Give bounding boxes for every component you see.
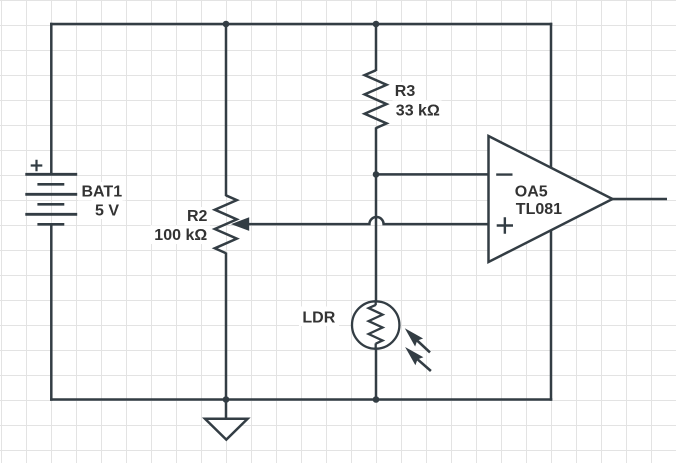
svg-text:R3: R3 (395, 83, 416, 100)
svg-text:BAT1: BAT1 (82, 183, 123, 200)
label 5 V (92, 200, 123, 219)
battery BAT1 (25, 160, 77, 225)
node: top rail / R2 junction (223, 21, 230, 28)
label 33 kOhm (393, 100, 442, 119)
svg-text:TL081: TL081 (516, 201, 562, 218)
wire: vertical wire from node down to LDR (375, 174, 378, 300)
svg-text:5 V: 5 V (95, 202, 119, 219)
label R3 (392, 82, 420, 100)
wire: bottom ground rail (50, 398, 552, 401)
potentiometer R2 (215, 195, 249, 253)
wire: R2 top lead (225, 23, 228, 196)
wire: R3 top lead (375, 23, 378, 71)
svg-text:R2: R2 (187, 208, 208, 225)
label BAT1 (78, 182, 126, 201)
resistor R3 (365, 70, 387, 128)
photoresistor LDR (352, 300, 431, 371)
label LDR (299, 307, 339, 327)
wire: LDR bottom lead (375, 350, 378, 401)
wire: op-amp output (612, 198, 668, 201)
wire: R2 wiper to op-amp non-inverting input (hops over vertical wire) (249, 217, 490, 224)
label 100 kOhm (151, 225, 211, 244)
svg-text:100 kΩ: 100 kΩ (154, 227, 207, 244)
node: top rail / R3 junction (373, 21, 380, 28)
svg-text:LDR: LDR (302, 309, 335, 326)
wire: battery negative lead down to bottom rail (50, 224, 53, 401)
wire: battery positive lead up to top rail (50, 23, 53, 175)
svg-text:33 kΩ: 33 kΩ (396, 102, 440, 119)
svg-text:OA5: OA5 (515, 184, 548, 201)
wire: node to op-amp inverting input (376, 173, 490, 176)
wire: top V+ rail (50, 23, 552, 26)
op-amp OA5 (489, 136, 613, 262)
wire: R2 bottom lead (225, 253, 228, 401)
wire: R3 bottom lead to inverting-input node (375, 128, 378, 175)
label R2 (183, 207, 211, 225)
wire: right rail (passes under op-amp) (550, 23, 553, 401)
node: bottom rail / LDR junction (373, 396, 380, 403)
node: bottom rail / ground junction (223, 396, 230, 403)
node: inverting input junction (373, 171, 380, 178)
ground (205, 400, 248, 440)
